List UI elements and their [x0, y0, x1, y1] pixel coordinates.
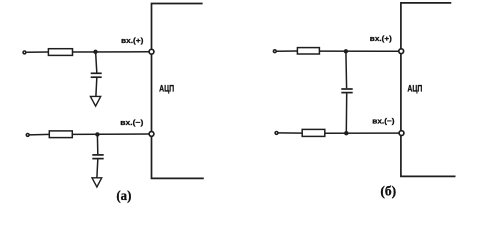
- svg-text:вх.(+): вх.(+): [370, 34, 393, 43]
- svg-text:вх.(−): вх.(−): [120, 118, 144, 127]
- svg-text:(б): (б): [380, 184, 396, 199]
- svg-text:вх.(+): вх.(+): [121, 36, 144, 45]
- svg-text:вх.(−): вх.(−): [372, 116, 395, 125]
- svg-text:(а): (а): [116, 189, 131, 204]
- svg-text:АЦП: АЦП: [407, 83, 422, 93]
- svg-text:АЦП: АЦП: [159, 83, 174, 93]
